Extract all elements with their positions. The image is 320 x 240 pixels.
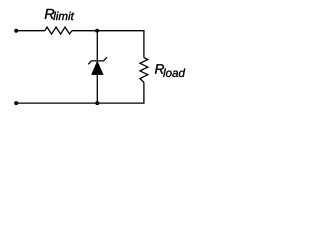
resistor R_load (vertical zigzag)	[140, 58, 148, 83]
wire: zener branch upper (junction down to cathode bar)	[96, 31, 98, 61]
node: junction dot top of zener branch	[95, 29, 99, 33]
wire: top rail from R_limit through node A to top-right corner, down to R_load	[72, 31, 144, 58]
node: input terminal bottom (dot)	[14, 101, 18, 105]
resistor R_limit (zigzag)	[45, 27, 72, 34]
wire: top-left from terminal to R_limit	[16, 30, 45, 32]
node: input terminal top (dot)	[14, 29, 18, 33]
wire: bottom rail from R_load through bottom-right corner to input terminal	[16, 82, 144, 103]
label R_load	[155, 64, 185, 77]
wire: zener branch lower (anode down to bottom rail)	[96, 75, 98, 104]
node: junction dot bottom of zener branch	[95, 101, 99, 105]
label R_limit	[45, 9, 74, 20]
zener diode D1: cathode bar with bent tails	[88, 57, 107, 64]
zener diode D1: anode triangle (filled, apex up)	[92, 61, 104, 74]
